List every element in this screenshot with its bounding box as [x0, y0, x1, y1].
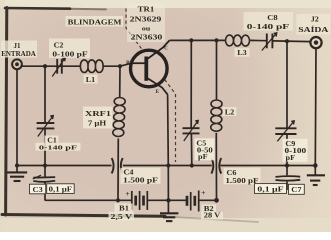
svg-text:J2: J2	[311, 15, 319, 23]
wire: top collector rail	[170, 40, 311, 41]
svg-text:0-140 pF: 0-140 pF	[39, 143, 77, 151]
wire: C5 branch	[190, 40, 193, 165]
label C3 / 0,1 µF boxes	[30, 184, 75, 194]
node: junction C5 top	[189, 38, 193, 42]
svg-text:ou: ou	[142, 24, 151, 32]
wire: C9 branch	[286, 41, 288, 165]
ground (center)	[160, 200, 178, 221]
inductor L2 coil	[211, 100, 222, 131]
capacitor C8 (variable, series)	[262, 33, 277, 51]
svg-text:BLINDAGEM: BLINDAGEM	[68, 18, 122, 26]
label L1	[84, 75, 98, 84]
wire: J1 shield down to ground rail	[16, 69, 18, 165]
ground (left)	[7, 166, 27, 182]
label C9	[283, 139, 308, 162]
inductor L3	[225, 35, 249, 46]
svg-text:C3: C3	[32, 186, 42, 194]
label L2	[223, 107, 237, 116]
svg-text:0-100 pF: 0-100 pF	[52, 50, 87, 58]
label J2 / SAIDA	[297, 14, 331, 35]
label B2	[201, 205, 223, 220]
capacitor C3	[33, 166, 55, 201]
label TR1 block	[127, 4, 165, 43]
node: junction C1 tap	[43, 64, 47, 68]
node: junction C9 top	[285, 39, 289, 43]
svg-text:28 V: 28 V	[204, 211, 221, 219]
battery B2	[187, 191, 199, 212]
svg-text:E: E	[156, 89, 160, 95]
label L3	[235, 48, 250, 57]
svg-text:7 µH: 7 µH	[88, 119, 107, 127]
svg-text:B1: B1	[119, 204, 129, 212]
svg-text:SAÍDA: SAÍDA	[298, 26, 329, 34]
node: junction C1/C3	[43, 163, 47, 167]
capacitor C4 (series on rail, wire passes between plates)	[112, 158, 123, 173]
node: junction choke bottom	[116, 198, 120, 202]
connector J1	[12, 59, 22, 69]
choke XRF1 wire (base to battery line)	[118, 66, 120, 200]
ground (right)	[307, 166, 325, 186]
node: junction L2 top	[214, 38, 218, 42]
svg-text:C7: C7	[291, 186, 301, 194]
svg-text:C6: C6	[227, 169, 237, 177]
connector J2	[310, 37, 321, 48]
capacitor C7	[276, 166, 301, 191]
svg-text:0-140 pF: 0-140 pF	[247, 24, 290, 31]
svg-text:pF: pF	[286, 154, 296, 162]
svg-text:J1: J1	[14, 42, 22, 50]
svg-text:0,1 µF: 0,1 µF	[49, 185, 73, 193]
inductor L1	[80, 60, 103, 73]
svg-text:+: +	[125, 189, 129, 198]
svg-text:L1: L1	[86, 76, 96, 84]
svg-text:C: C	[164, 46, 168, 52]
label 0,1 µF / C7 boxes	[255, 184, 305, 195]
capacitor C1 (variable)	[37, 116, 55, 137]
label B1	[109, 204, 135, 221]
node: junction choke tap	[118, 64, 122, 68]
svg-text:1.500 pF: 1.500 pF	[225, 177, 258, 185]
wire: battery bottom line	[45, 199, 217, 201]
wire: C1 branch vertical	[44, 66, 46, 165]
node: junction rail left corner	[15, 164, 19, 168]
svg-text:+: +	[201, 188, 205, 197]
label patch J1/ENTRADA	[1, 41, 37, 59]
svg-text:B: B	[126, 60, 130, 66]
capacitor C2 (variable, series)	[52, 58, 65, 77]
transistor TR1	[131, 40, 170, 94]
wire: J2 shield down	[314, 48, 317, 166]
battery B1	[132, 191, 148, 210]
choke XRF1 coil	[113, 98, 125, 137]
wire: input line J1 to base	[22, 63, 132, 66]
capacitor C9 (variable)	[275, 121, 296, 142]
node: junction center ground	[166, 198, 170, 202]
svg-text:L3: L3	[237, 49, 247, 57]
svg-text:ENTRADA: ENTRADA	[1, 50, 36, 58]
svg-text:C4: C4	[124, 168, 134, 176]
shield dashed line (blindagem)	[126, 9, 176, 163]
node: junction C5 bottom	[190, 163, 194, 167]
svg-text:2N3629: 2N3629	[130, 15, 162, 23]
label C6	[224, 168, 261, 185]
node: junction B2/L2 corner	[214, 198, 219, 203]
label BLINDAGEM	[66, 16, 124, 27]
svg-text:1.500 pF: 1.500 pF	[123, 177, 158, 184]
label XRF1	[83, 107, 113, 129]
svg-text:pF: pF	[198, 153, 208, 161]
wire: L2 branch	[215, 40, 217, 200]
wire: emitter vertical	[167, 95, 170, 201]
svg-text:XRF1: XRF1	[85, 110, 111, 118]
label C4	[121, 168, 161, 184]
label C1	[36, 136, 81, 152]
node: junction C9/C7	[285, 163, 289, 167]
wire: main bottom rail	[17, 165, 315, 167]
label C8	[244, 12, 294, 31]
label C5	[195, 138, 215, 160]
svg-text:L2: L2	[225, 108, 235, 116]
svg-text:2N3630: 2N3630	[131, 33, 163, 41]
svg-text:0,1 µF: 0,1 µF	[257, 185, 283, 193]
svg-text:C8: C8	[267, 14, 278, 22]
svg-text:C2: C2	[54, 41, 64, 49]
svg-text:TR1: TR1	[138, 5, 155, 13]
capacitor C6 (series on rail, wire passes between plates)	[211, 158, 221, 174]
node: junction emitter/rail	[166, 163, 170, 167]
label C2	[49, 39, 90, 59]
svg-text:2,5 V: 2,5 V	[111, 212, 134, 220]
node: junction J2 ground	[313, 163, 318, 168]
capacitor C5 (variable)	[183, 120, 200, 141]
